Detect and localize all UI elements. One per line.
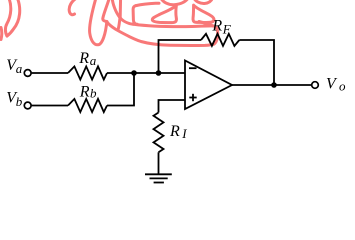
svg-text:R: R [169, 123, 180, 140]
red watermark [1, 0, 218, 46]
resistor Rb [68, 99, 107, 112]
label RI [169, 123, 187, 141]
wire op-amp plus input [159, 100, 186, 113]
wire Va input [32, 72, 68, 74]
op-amp plus sign [189, 94, 196, 101]
svg-text:F: F [222, 21, 232, 36]
svg-text:a: a [90, 53, 97, 68]
output node junction dot [271, 82, 277, 88]
op-amp U1 [185, 61, 232, 110]
svg-text:b: b [90, 85, 97, 100]
node A junction dot [131, 70, 137, 76]
terminal Vb [24, 102, 31, 109]
terminal Vo [312, 82, 319, 89]
wire Vb input [32, 105, 68, 107]
wire RI to ground [158, 152, 160, 174]
label Va [6, 57, 23, 76]
wire Ra to op-amp minus input [107, 72, 185, 74]
svg-text:b: b [16, 94, 23, 109]
svg-text:I: I [181, 126, 187, 141]
svg-text:R: R [211, 17, 222, 34]
node B junction dot [156, 70, 162, 76]
wire Rb up to node A [107, 73, 134, 106]
terminal Va [24, 70, 31, 77]
wire node B up to RF [159, 40, 202, 73]
label RF [211, 17, 231, 36]
wire op-amp output [232, 84, 311, 86]
op-amp minus sign [189, 67, 197, 69]
svg-text:R: R [78, 50, 89, 67]
resistor RF [201, 34, 239, 46]
label Ra [78, 50, 97, 68]
resistor RI [154, 113, 164, 153]
svg-text:o: o [339, 78, 346, 93]
resistor Ra [68, 66, 107, 79]
label Vo [326, 76, 346, 94]
svg-text:R: R [79, 84, 90, 101]
ground [145, 174, 172, 182]
label Vb [6, 89, 23, 109]
wire RF to output node [239, 40, 274, 85]
svg-text:a: a [16, 61, 23, 76]
label Rb [79, 84, 97, 101]
